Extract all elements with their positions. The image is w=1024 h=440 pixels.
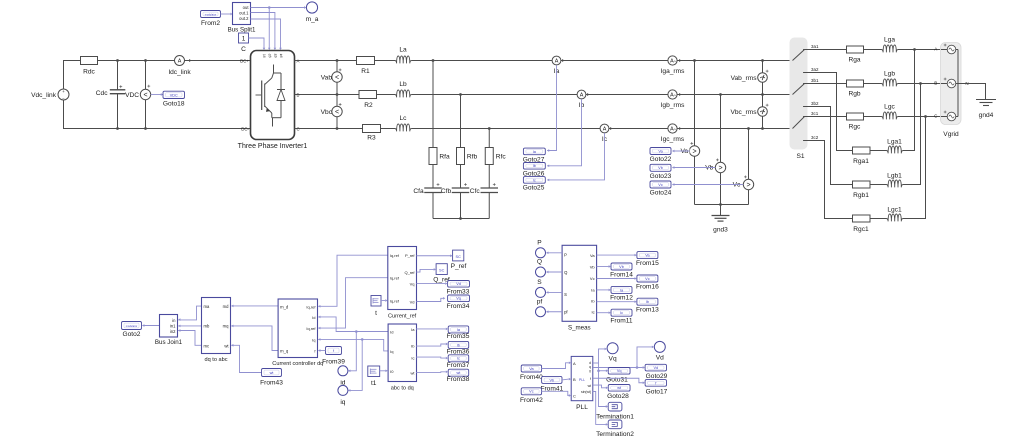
wire S_meas Va to From15 — [597, 254, 635, 256]
wire Rgc1 to Lgc1 — [870, 218, 887, 220]
wire Vdc_link bottom DC- rail to inverter — [64, 100, 251, 129]
goto block Goto25 — [523, 177, 546, 192]
svg-text:Igc_rms: Igc_rms — [661, 136, 685, 143]
svg-text:Ib: Ib — [457, 343, 460, 347]
wire Iq branch to iq scope — [348, 339, 362, 390]
goto block Goto29 — [645, 364, 668, 380]
svg-text:PLL: PLL — [579, 378, 585, 382]
svg-text:From36: From36 — [447, 348, 470, 355]
svg-text:Lgb1: Lgb1 — [887, 173, 902, 180]
wire R2 to Lb — [377, 94, 396, 96]
from block From16 — [636, 275, 659, 290]
from block From13 — [636, 298, 659, 313]
svg-text:From14: From14 — [610, 271, 633, 278]
svg-text:sin(wt): sin(wt) — [581, 390, 591, 394]
svg-text:Bus Split1: Bus Split1 — [228, 27, 256, 34]
scope m_a — [306, 2, 319, 23]
node junction parallel leg Lga — [913, 48, 916, 51]
svg-text:Igb_rms: Igb_rms — [661, 102, 686, 109]
svg-text:iq: iq — [340, 399, 345, 406]
node junction Vab_rms top phase A — [761, 59, 764, 62]
from block From35 — [447, 326, 470, 340]
wire Igb_rms to S1 phase b — [677, 94, 792, 96]
goto block Goto27 — [523, 148, 546, 163]
subsystem Three Phase Inverter1 — [238, 51, 308, 151]
resistor Rgc1 — [853, 215, 871, 233]
svg-text:Cfb: Cfb — [441, 188, 452, 195]
wire switch to Rgb — [804, 83, 847, 85]
svg-text:R2: R2 — [364, 102, 373, 109]
svg-text:A: A — [297, 59, 300, 64]
svg-text:Vd: Vd — [656, 355, 664, 362]
svg-text:From33: From33 — [447, 289, 470, 296]
wire Lgc to Vgrid — [898, 116, 941, 118]
capacitor Cfb — [441, 183, 469, 195]
wire S_meas to scope pf — [546, 311, 562, 313]
wire Bus Split out.1 to inverter gate 2 — [251, 13, 275, 49]
node junction filter branch A — [432, 59, 435, 62]
svg-text:B: B — [934, 81, 937, 86]
node junction Cdc bottom — [116, 127, 119, 130]
svg-text:out.1: out.1 — [239, 11, 249, 16]
current arrow after Igb_rms — [679, 93, 681, 96]
wire Rga1 to Lga1 — [870, 150, 887, 152]
svg-text:Ic: Ic — [457, 357, 460, 361]
switch blade phase c — [793, 117, 805, 141]
resistor Rfc — [485, 148, 506, 165]
node junction parallel leg Lgc — [924, 115, 927, 118]
wire Current_ref P_ref out — [416, 255, 450, 257]
wire Rfb to Cfb — [460, 165, 462, 189]
svg-text:DC-: DC- — [241, 127, 249, 132]
svg-text:S1: S1 — [796, 153, 804, 160]
goto block Goto2 — [122, 322, 142, 339]
wire voltmeter star rail — [695, 204, 749, 206]
svg-text:Ib: Ib — [533, 164, 536, 168]
subsystem dq to abc — [202, 298, 231, 364]
svg-text:Iq,ref: Iq,ref — [390, 253, 400, 258]
svg-text:Bus Join1: Bus Join1 — [155, 339, 183, 346]
inductor Lga — [882, 37, 898, 53]
svg-text:From15: From15 — [636, 260, 659, 267]
svg-text:gnd3: gnd3 — [713, 226, 728, 233]
current arrow after Ic — [610, 127, 612, 130]
svg-text:<: < — [335, 75, 339, 82]
svg-text:3a2: 3a2 — [811, 67, 819, 72]
wire Lga to Vgrid — [898, 49, 941, 51]
wire Ia signal to Goto27 — [547, 65, 556, 150]
from block From2 modulator — [201, 11, 221, 28]
wire filter star rail — [433, 218, 489, 220]
svg-text:From43: From43 — [260, 380, 283, 387]
wire From2 to Bus Split1 — [221, 13, 231, 15]
svg-text:Id: Id — [312, 315, 315, 320]
goto block Goto26 — [523, 163, 546, 178]
wire Ic to Igc_rms — [609, 128, 668, 130]
svg-text:P: P — [537, 239, 542, 246]
capacitor Cfc — [470, 183, 498, 195]
svg-text:Rgc1: Rgc1 — [853, 226, 869, 233]
inductor Lgb — [882, 71, 898, 87]
switch blade phase a — [793, 50, 805, 73]
wire Current_ref Iqref to controller port1 — [318, 255, 388, 306]
wire Ib signal to Goto26 — [547, 99, 581, 166]
svg-text:C: C — [297, 127, 300, 132]
subsystem Current controller dq — [272, 299, 323, 367]
block Bus Split1 — [228, 3, 256, 34]
svg-text:Lb: Lb — [399, 81, 407, 88]
resistor Rgb — [847, 80, 864, 98]
scope Vd — [654, 341, 665, 361]
svg-text:SC: SC — [439, 268, 445, 272]
svg-text:From12: From12 — [610, 295, 633, 302]
svg-text:A: A — [670, 59, 674, 65]
wire phase to Rfa — [432, 61, 434, 148]
resistor Rgb1 — [853, 181, 871, 199]
node junction Vab top on phase A — [336, 59, 339, 62]
current arrow after Ib — [587, 93, 589, 96]
svg-text:3c2: 3c2 — [811, 135, 819, 140]
ground gnd4 — [976, 100, 996, 120]
node junction VDC bottom — [144, 127, 147, 130]
svg-text:Lgc: Lgc — [884, 104, 895, 111]
resistor Rgc — [847, 113, 864, 131]
svg-text:m_a: m_a — [306, 16, 319, 23]
wire switch to Rga — [804, 49, 847, 51]
svg-text:S: S — [537, 279, 542, 286]
wire phase to Rfc — [488, 129, 490, 148]
svg-text:ma: ma — [204, 304, 210, 309]
wire Rfa to Cfa — [432, 165, 434, 189]
svg-text:in1: in1 — [170, 323, 176, 328]
wire abc-to-dq Ib to From36 — [416, 344, 446, 346]
from block From15 — [636, 252, 659, 267]
rms voltmeter Vab_rms — [731, 61, 769, 95]
svg-text:<: < — [335, 109, 339, 116]
wire inverter B output — [295, 94, 360, 96]
svg-text:From37: From37 — [447, 362, 470, 369]
svg-text:From34: From34 — [447, 303, 470, 310]
svg-text:Vgrid: Vgrid — [943, 131, 959, 138]
svg-text:Lgc1: Lgc1 — [887, 207, 902, 214]
wire inverter A output — [295, 60, 357, 62]
wire PLL wt to Goto28 — [593, 385, 606, 388]
svg-text:abc to dq: abc to dq — [391, 386, 414, 392]
ground gnd3 — [712, 205, 730, 234]
svg-text:Cfc: Cfc — [470, 188, 481, 195]
scope iq — [338, 385, 348, 406]
svg-text:From40: From40 — [520, 374, 543, 381]
svg-text:A: A — [603, 127, 607, 133]
rms voltmeter Vbc_rms — [730, 95, 768, 129]
scope Q — [536, 259, 546, 278]
svg-text:Vq: Vq — [609, 356, 617, 363]
svg-text:Id: Id — [390, 330, 393, 335]
svg-text:mb: mb — [204, 324, 210, 329]
wire From41 to PLL B — [562, 378, 569, 381]
svg-text:Lc: Lc — [400, 115, 408, 122]
voltmeter Va — [679, 61, 700, 205]
svg-text:Rgb1: Rgb1 — [853, 192, 869, 199]
svg-text:A: A — [934, 47, 937, 52]
block Bus Join1 — [155, 315, 183, 347]
svg-text:Lgb: Lgb — [884, 71, 895, 78]
svg-text:Ic: Ic — [411, 356, 414, 361]
svg-text:in2: in2 — [170, 329, 176, 334]
voltmeter VDC — [125, 61, 151, 129]
svg-text:3a1: 3a1 — [811, 44, 819, 49]
wire Cfa to star point — [432, 193, 434, 219]
ammeter Ia — [552, 56, 561, 75]
wire La to Ia ammeter — [411, 60, 552, 62]
svg-text:pf: pf — [537, 298, 543, 305]
svg-text:Goto29: Goto29 — [646, 373, 668, 380]
svg-text:Current_ref: Current_ref — [388, 314, 417, 320]
wire abc-to-dq Ic to From37 — [416, 357, 446, 358]
svg-text:f: f — [590, 377, 591, 381]
node junction Vc tap on phase C — [747, 127, 750, 130]
svg-text:>: > — [718, 165, 722, 172]
svg-text:Goto17: Goto17 — [646, 388, 668, 395]
wire From43 to dq-to-abc wt — [231, 345, 261, 372]
scope S — [536, 279, 546, 298]
node junction filter branch B — [459, 93, 462, 96]
block Termination2 — [596, 420, 634, 438]
wire Rga to Lga — [864, 49, 882, 51]
wire Lc to Ic ammeter — [411, 128, 600, 130]
rms ammeter Igb_rms — [661, 90, 686, 109]
svg-text:B: B — [297, 93, 300, 98]
ammeter Ib — [577, 90, 586, 109]
wire Cfb to star point — [460, 193, 462, 219]
svg-text:out.2: out.2 — [239, 16, 249, 21]
subsystem Current_ref — [388, 247, 417, 320]
ammeter Idc_link — [168, 56, 191, 77]
wire PLL d to Vq scope, Goto31 and Termination1 — [593, 362, 598, 364]
wire controller m_q to dq-to-abc mq — [231, 326, 278, 351]
svg-text:Vb: Vb — [619, 265, 624, 269]
wire R1 to La — [375, 60, 396, 62]
svg-text:Vd: Vd — [410, 300, 415, 305]
from block From42 — [520, 388, 543, 404]
wire switch to Rga1 — [804, 73, 853, 151]
resistor Rfa — [429, 148, 450, 165]
from block From39 — [322, 347, 345, 366]
svg-text:gnd4: gnd4 — [979, 112, 994, 119]
svg-text:Vbc: Vbc — [321, 109, 333, 116]
svg-text:PLL: PLL — [576, 404, 588, 411]
voltmeter Vb — [704, 95, 726, 205]
scope P — [536, 239, 546, 257]
svg-text:From13: From13 — [636, 307, 659, 314]
wire S_meas to scope S — [546, 291, 562, 293]
inductor Lb — [395, 81, 411, 97]
svg-text:From38: From38 — [447, 376, 470, 383]
wire dq-to-abc mb to Bus Join in1 — [178, 325, 201, 327]
wire Lgb1 back to grid node — [903, 84, 921, 185]
svg-text:Lga1: Lga1 — [887, 139, 902, 146]
wire C to inverter enable port — [249, 38, 265, 48]
inductor Lc — [395, 115, 411, 131]
wire S_meas Vc to From16 — [597, 278, 635, 280]
voltmeter Vab — [321, 61, 342, 95]
resistor R1 — [357, 57, 375, 76]
wire Lgc1 back to grid node — [903, 117, 926, 219]
wire From42 to PLL C — [542, 391, 569, 395]
svg-text:Goto24: Goto24 — [650, 189, 672, 196]
capacitor Cfa — [413, 183, 441, 195]
current arrow after Idc_link — [189, 59, 191, 62]
svg-text:modulator: modulator — [126, 324, 138, 328]
from block From14 — [610, 263, 633, 278]
svg-text:3b2: 3b2 — [811, 101, 819, 106]
node junction Vbc bottom on phase C — [336, 127, 339, 130]
svg-text:Goto28: Goto28 — [607, 393, 629, 400]
svg-text:Iq,ref: Iq,ref — [390, 298, 400, 303]
wire Ib to Igb_rms — [586, 94, 668, 96]
svg-text:Vab: Vab — [321, 74, 333, 81]
svg-text:Vd: Vd — [456, 282, 461, 286]
wire q branch up to Vd scope — [637, 347, 652, 368]
svg-text:Iga_rms: Iga_rms — [661, 68, 686, 75]
wire Lb to Ib ammeter — [411, 94, 577, 96]
svg-text:Vq: Vq — [617, 369, 622, 373]
svg-text:Vd: Vd — [653, 366, 658, 370]
inductor La — [395, 47, 411, 64]
wire PLL f to Goto17 — [593, 378, 643, 383]
svg-text:A: A — [573, 361, 576, 366]
wire Current_ref Idref to controller port3 — [318, 278, 388, 328]
wire abc-to-dq wt to From38 — [416, 371, 446, 374]
svg-text:Vc: Vc — [645, 277, 650, 281]
wire PLL sin(wt) to Termination2 — [593, 392, 606, 425]
wire S_meas to scope P — [546, 252, 562, 254]
svg-text:P: P — [564, 253, 567, 258]
svg-text:Vdc_link: Vdc_link — [31, 92, 57, 99]
svg-text:From2: From2 — [201, 20, 220, 27]
wire S_meas Vb to From14 — [597, 266, 609, 268]
svg-text:Goto25: Goto25 — [523, 185, 545, 192]
svg-text:S_meas: S_meas — [568, 325, 591, 332]
scope pf — [536, 298, 546, 317]
svg-text:SC: SC — [456, 255, 462, 259]
goto block Goto28 — [607, 385, 630, 401]
svg-text:Termination2: Termination2 — [596, 431, 634, 438]
svg-text:Termination1: Termination1 — [596, 414, 634, 421]
node junction VDC top — [144, 59, 147, 62]
svg-text:From39: From39 — [322, 359, 345, 366]
svg-text:P_ref: P_ref — [451, 263, 467, 270]
svg-text:Vq: Vq — [410, 281, 415, 286]
svg-text:m_q: m_q — [280, 349, 289, 354]
svg-text:dq to abc: dq to abc — [204, 357, 227, 363]
resistor R2 — [359, 91, 377, 110]
wire Vgrid N to gnd4 — [961, 84, 986, 100]
inductor Lgc1 — [887, 207, 903, 222]
from block From12 — [610, 286, 633, 301]
scope block Q_ref — [433, 264, 450, 284]
svg-text:Current controller dq: Current controller dq — [272, 361, 323, 367]
constant block C value 1 — [239, 33, 249, 53]
wire Cfc to star point — [488, 193, 490, 219]
svg-text:Q_ref: Q_ref — [404, 270, 415, 275]
svg-text:Vbc_rms: Vbc_rms — [730, 109, 757, 116]
from block From36 — [447, 341, 470, 355]
svg-text:From42: From42 — [520, 397, 543, 404]
svg-text:La: La — [399, 47, 407, 54]
from block From41 — [540, 376, 563, 392]
scope id — [338, 366, 348, 387]
resistor Rdc — [81, 57, 98, 76]
wire Igc_rms to S1 phase c — [677, 128, 792, 130]
svg-text:From11: From11 — [610, 318, 633, 325]
svg-text:Ic: Ic — [591, 309, 594, 314]
svg-text:Ib: Ib — [646, 300, 649, 304]
wire Rdc to Idc_link ammeter — [98, 60, 175, 62]
svg-text:VDC: VDC — [170, 93, 178, 97]
wire S_meas Ia to From12 — [597, 289, 609, 291]
resistor Rfb — [457, 148, 478, 165]
svg-text:C: C — [573, 394, 576, 399]
wire d branch to Goto31 — [599, 370, 607, 372]
inverter internal diode — [277, 73, 285, 118]
wire Bus Split out to m_a and inverter gate 1 — [251, 7, 306, 9]
resistor Rga — [847, 46, 864, 64]
svg-text:Iq: Iq — [390, 349, 393, 354]
wire switch to Rgc1 — [804, 141, 853, 219]
svg-text:t1: t1 — [371, 380, 377, 387]
rms ammeter Iga_rms — [661, 56, 686, 75]
svg-text:g3: g3 — [273, 53, 278, 58]
node junction Cdc top — [116, 59, 119, 62]
svg-text:Goto2: Goto2 — [123, 331, 141, 338]
svg-text:Vb: Vb — [549, 378, 554, 382]
svg-text:Iq: Iq — [312, 337, 315, 342]
node junction Vab/Vbc on phase B — [336, 93, 339, 96]
svg-text:<: < — [143, 92, 147, 99]
svg-text:Three Phase Inverter1: Three Phase Inverter1 — [238, 143, 308, 150]
wire Vb signal to Goto23 — [672, 167, 715, 169]
wire From39 to controller f — [318, 350, 325, 352]
node junction Id branch — [355, 330, 358, 333]
wire PLL q to Goto29 — [593, 367, 643, 369]
svg-text:Rgb: Rgb — [848, 91, 860, 98]
from block From11 — [610, 309, 633, 324]
wire phase to Rfb — [460, 95, 462, 148]
svg-text:Rgc: Rgc — [849, 124, 861, 131]
wire abc-to-dq Id to controller port2 — [318, 317, 388, 332]
svg-text:Rdc: Rdc — [83, 69, 95, 76]
wire Rfc to Cfc — [488, 165, 490, 189]
svg-text:Vb: Vb — [705, 165, 713, 172]
wire dq-to-abc ma to Bus Join in — [178, 306, 201, 320]
ammeter Ic — [600, 124, 609, 143]
wire Vc signal to Goto24 — [672, 184, 743, 186]
wire Bus Split out.2 to inverter gate 3 — [251, 19, 281, 48]
goto block Goto17 — [645, 380, 668, 396]
wire Rgb to Lgb — [864, 83, 882, 85]
svg-text:DC+: DC+ — [240, 59, 249, 64]
wire t to Current_ref — [381, 300, 385, 302]
resistor R3 — [363, 125, 381, 142]
rms ammeter Igc_rms — [661, 124, 685, 143]
wire Ic signal to Goto25 — [547, 133, 604, 180]
from block From37 — [447, 355, 470, 369]
svg-text:A: A — [178, 59, 182, 65]
svg-text:Goto23: Goto23 — [650, 173, 672, 180]
switch block S1 background — [790, 38, 808, 150]
wire Vdc_link top to Rdc — [64, 61, 81, 90]
